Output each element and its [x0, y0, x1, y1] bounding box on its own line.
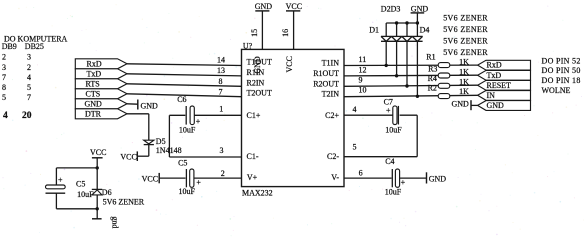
capacitor C6 10uF: [169, 95, 241, 135]
node D3 on wire 9: [405, 84, 408, 87]
zener diode D6 5V6: [92, 168, 145, 219]
svg-text:8: 8: [219, 77, 223, 86]
svg-text:T2OUT: T2OUT: [247, 89, 272, 98]
svg-text:C6: C6: [177, 95, 186, 104]
svg-text:WOLNE: WOLNE: [542, 86, 571, 95]
capacitor C4 10uF: [344, 157, 427, 196]
label D2D3: [381, 4, 401, 13]
port TxD (right): [478, 70, 531, 80]
power GND at C4: [427, 172, 447, 183]
zener diode D2: [391, 36, 401, 75]
zener diode D3: [402, 36, 412, 86]
svg-text:14: 14: [217, 56, 225, 65]
svg-text:T1IN: T1IN: [322, 59, 340, 68]
svg-text:R3: R3: [428, 64, 437, 73]
svg-text:GND: GND: [141, 102, 159, 111]
power VCC above U1 pin 16: [281, 2, 302, 50]
svg-text:C2-: C2-: [327, 152, 339, 161]
zener diode D4: [412, 25, 429, 96]
svg-text:2: 2: [221, 169, 225, 178]
svg-text:R1OUT: R1OUT: [313, 69, 339, 78]
svg-text:+: +: [196, 117, 201, 126]
svg-text:+: +: [401, 178, 406, 187]
wire pin 11 to port RxD: [344, 64, 478, 66]
svg-text:DB25: DB25: [25, 42, 44, 51]
svg-text:DO PIN 50: DO PIN 50: [542, 66, 581, 75]
port GND (left): [75, 99, 127, 109]
wire VCC junction to C5 top: [56, 168, 97, 186]
svg-text:C2+: C2+: [325, 111, 339, 120]
svg-text:2: 2: [2, 53, 6, 62]
resistor R1 1K: [426, 53, 469, 68]
capacitor C5 (bottom left) 10uF: [46, 175, 95, 199]
wire TxD to pin 13: [127, 74, 242, 76]
svg-text:10: 10: [359, 86, 367, 95]
node D6/C5 bottom junction: [96, 207, 99, 210]
svg-text:5V6 ZENER: 5V6 ZENER: [443, 37, 488, 46]
svg-text:10uF: 10uF: [385, 126, 402, 135]
power GND at left port: [127, 100, 158, 111]
svg-text:DO PIN 52: DO PIN 52: [542, 57, 581, 66]
svg-text:1K: 1K: [459, 58, 469, 67]
wire C5 bottom to gnd junction: [56, 193, 97, 209]
svg-text:C4: C4: [385, 157, 394, 166]
svg-text:+: +: [196, 178, 201, 187]
svg-text:C5: C5: [76, 180, 85, 189]
svg-text:VCC: VCC: [142, 175, 158, 184]
svg-text:10uF: 10uF: [179, 126, 196, 135]
node D2 top: [395, 21, 398, 24]
svg-text:GND: GND: [255, 2, 273, 11]
port IN (right): [478, 91, 531, 101]
svg-text:R2OUT: R2OUT: [313, 79, 339, 88]
svg-text:C5: C5: [178, 158, 187, 167]
svg-text:TxD: TxD: [87, 70, 102, 79]
wire C6 loop to pin 3: [169, 115, 241, 157]
port TxD (left): [75, 69, 127, 79]
svg-text:V-: V-: [331, 173, 339, 182]
wire CTS to pin 7: [127, 94, 242, 97]
resistor R3 1K: [428, 64, 469, 78]
svg-text:10uF: 10uF: [179, 187, 196, 196]
svg-text:R4: R4: [428, 74, 437, 83]
power VCC top-left: [90, 148, 106, 168]
svg-text:gnd: gnd: [110, 216, 119, 228]
pin name GND (rotated, inside U1): [253, 56, 262, 74]
svg-text:DB9: DB9: [2, 42, 17, 51]
svg-text:GND: GND: [487, 101, 505, 110]
svg-text:4: 4: [3, 111, 8, 121]
svg-text:16: 16: [281, 29, 290, 37]
svg-text:VCC: VCC: [120, 153, 136, 162]
zener cathode bar D1-D4: [381, 40, 423, 42]
svg-text:5V6 ZENER: 5V6 ZENER: [443, 14, 488, 23]
svg-text:8: 8: [2, 83, 6, 92]
svg-text:RxD: RxD: [87, 60, 102, 69]
svg-text:R1IN: R1IN: [247, 68, 265, 77]
svg-text:12: 12: [359, 66, 367, 75]
svg-text:D6: D6: [102, 188, 112, 197]
node D4 top: [416, 21, 419, 24]
svg-text:5: 5: [2, 93, 6, 102]
svg-text:IN: IN: [487, 91, 496, 100]
pin name VCC (rotated, inside U1): [285, 56, 294, 72]
pin numbers right side: [353, 55, 367, 177]
node D1 on wire 11: [385, 64, 388, 67]
port RTS (left): [75, 79, 127, 89]
svg-text:T1OUT: T1OUT: [247, 58, 272, 67]
op-amp U? MAX232 body: [242, 41, 345, 197]
svg-text:1K: 1K: [459, 67, 469, 76]
svg-text:3: 3: [27, 53, 31, 62]
svg-text:R2IN: R2IN: [247, 78, 265, 87]
svg-text:C1-: C1-: [247, 152, 259, 161]
pin names left column: [247, 58, 272, 183]
wire C7 loop to pin 5: [344, 115, 417, 157]
wire RTS to pin 8: [127, 84, 242, 87]
svg-text:2: 2: [27, 63, 31, 72]
svg-text:RxD: RxD: [487, 61, 502, 70]
wire DTR to D5: [127, 114, 149, 140]
svg-text:RESET: RESET: [487, 81, 512, 90]
svg-text:C1+: C1+: [247, 111, 261, 120]
port CTS (left): [75, 89, 127, 99]
svg-text:C7: C7: [384, 97, 393, 106]
svg-text:RTS: RTS: [86, 80, 100, 89]
svg-text:9: 9: [359, 75, 363, 84]
svg-text:11: 11: [359, 55, 367, 64]
svg-text:R1: R1: [426, 53, 435, 62]
diode D5 1N4148: [144, 137, 182, 156]
svg-text:TxD: TxD: [487, 71, 502, 80]
svg-text:T2IN: T2IN: [322, 90, 340, 99]
svg-text:+: +: [58, 175, 63, 184]
pin names right column: [313, 59, 339, 183]
svg-text:U?: U?: [243, 41, 253, 50]
wire RxD to pin 14: [127, 64, 242, 66]
svg-text:VCC: VCC: [286, 2, 302, 11]
svg-text:D1: D1: [369, 25, 379, 34]
svg-text:5: 5: [353, 143, 357, 152]
ground gnd bottom-left: [92, 216, 119, 228]
svg-text:MAX232: MAX232: [242, 189, 273, 198]
power VCC at C5: [142, 173, 160, 184]
svg-text:GND: GND: [85, 100, 103, 109]
svg-text:GND: GND: [411, 4, 429, 13]
power GND at right port: [452, 100, 478, 111]
svg-text:1: 1: [219, 105, 223, 114]
svg-text:GND: GND: [429, 175, 447, 184]
wire pin 9 to port RESET: [344, 85, 478, 86]
svg-text:1K: 1K: [459, 78, 469, 87]
zener diode D1: [369, 25, 391, 65]
node D4 on wire 10: [416, 95, 419, 98]
svg-text:6: 6: [359, 168, 363, 177]
svg-text:20: 20: [22, 111, 32, 121]
svg-text:4: 4: [27, 73, 31, 82]
svg-text:3: 3: [220, 146, 224, 155]
port RxD (left): [75, 59, 127, 69]
power GND above U1 pin 15: [250, 2, 272, 50]
svg-text:D2D3: D2D3: [381, 4, 401, 13]
labels DO PIN: [542, 57, 581, 95]
svg-text:V+: V+: [247, 173, 258, 182]
svg-text:5V6 ZENER: 5V6 ZENER: [443, 25, 488, 34]
capacitor C7 10uF: [344, 97, 417, 134]
label DO KOMPUTERA table: [2, 35, 68, 121]
svg-text:CTS: CTS: [86, 90, 101, 99]
svg-text:10uF: 10uF: [385, 187, 402, 196]
port RxD (right): [478, 60, 531, 70]
svg-text:VCC: VCC: [90, 148, 106, 157]
svg-text:10uF: 10uF: [77, 190, 94, 199]
power VCC at D5: [120, 151, 148, 161]
zener diodes D1-D4 bus: [386, 23, 417, 36]
node D2 on wire 12: [395, 74, 398, 77]
svg-text:7: 7: [27, 93, 31, 102]
svg-text:VCC: VCC: [285, 56, 294, 72]
labels 5V6 ZENER x4: [443, 14, 488, 58]
svg-text:3: 3: [2, 63, 6, 72]
resistor R4 1K: [428, 74, 470, 89]
port DTR (left): [75, 109, 127, 119]
svg-text:DTR: DTR: [85, 110, 102, 119]
svg-text:1K: 1K: [459, 87, 469, 96]
svg-text:5V6 ZENER: 5V6 ZENER: [443, 48, 488, 57]
wire pin 12 to port TxD: [344, 74, 478, 77]
svg-text:GND: GND: [452, 100, 470, 109]
svg-text:4: 4: [353, 105, 357, 114]
svg-text:DO PIN 18: DO PIN 18: [542, 76, 581, 85]
svg-text:13: 13: [217, 66, 225, 75]
svg-text:1N4148: 1N4148: [156, 146, 182, 155]
wire pin 10 to port IN: [344, 95, 478, 96]
resistor R2 1K: [428, 83, 470, 98]
pin numbers left side: [217, 56, 225, 178]
port GND (right): [478, 101, 531, 111]
svg-text:5V6 ZENER: 5V6 ZENER: [103, 197, 145, 206]
svg-text:5: 5: [27, 83, 31, 92]
svg-text:15: 15: [250, 29, 259, 37]
node VCC/C5/D6 junction: [96, 166, 99, 169]
svg-text:D4: D4: [420, 25, 430, 34]
svg-text:7: 7: [2, 73, 6, 82]
svg-text:+: +: [386, 106, 391, 115]
svg-text:7: 7: [219, 88, 223, 97]
capacitor C5 (at V+) 10uF: [159, 158, 241, 195]
svg-text:R2: R2: [428, 83, 437, 92]
node D3 top: [405, 21, 408, 24]
port RESET (right): [478, 80, 531, 90]
power GND at zeners: [411, 4, 429, 23]
